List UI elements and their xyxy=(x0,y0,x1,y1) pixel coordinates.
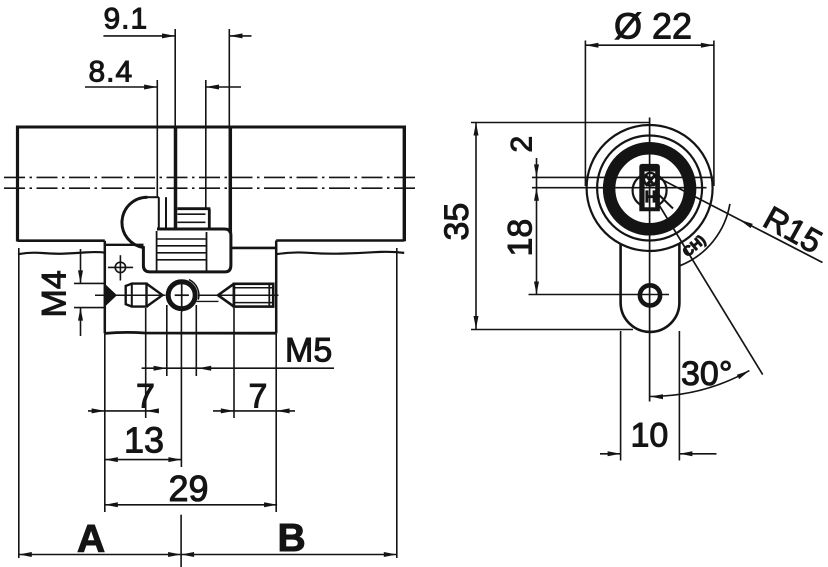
step line right of cam xyxy=(231,247,276,250)
extension line 8.4 left xyxy=(156,80,158,197)
dimension 8.4 line xyxy=(85,86,241,88)
cylinder body left edge xyxy=(16,126,19,242)
cam lobe arc and cam nose outline xyxy=(122,197,231,272)
dimension M5 line xyxy=(142,367,334,369)
dimension 2/18 vertical segments xyxy=(536,158,538,295)
M5 hole cross vertical xyxy=(181,281,183,313)
cam hatch line 3 xyxy=(157,252,207,254)
cam hatch boundary left xyxy=(156,231,158,271)
svg-text:CH): CH) xyxy=(679,232,708,260)
dimension 18 extension bottom xyxy=(529,294,670,296)
dimension 7 right line xyxy=(213,410,295,412)
horizontal centerline lower right view xyxy=(532,187,707,189)
fixing screw hole M5 ring xyxy=(168,282,195,309)
extension line 9.1 right xyxy=(228,29,230,127)
face outer circle xyxy=(587,125,713,251)
dimension 2 arrows / 18 arrows xyxy=(534,164,539,294)
grub screw left facet line xyxy=(131,284,133,307)
dimension 9.1 arrows xyxy=(162,33,243,38)
coupling inner line 2 xyxy=(178,221,206,223)
cylinder ring (thick) xyxy=(609,148,690,229)
extension line 9.1 left xyxy=(174,29,176,127)
extension line B right xyxy=(396,248,398,558)
svg-text:29: 29 xyxy=(169,468,209,509)
vertical centerline right view xyxy=(649,118,651,402)
A/B divider tick xyxy=(180,515,182,567)
svg-text:9.1: 9.1 xyxy=(104,3,149,36)
svg-text:2: 2 xyxy=(506,136,539,153)
keyhole key silhouette xyxy=(639,164,660,211)
worm screw cone base xyxy=(233,284,235,307)
M5 thread arc xyxy=(189,280,199,300)
worm screw end inner line xyxy=(268,284,270,307)
dimension 30deg arc xyxy=(650,371,749,397)
grub screw left body xyxy=(126,284,147,307)
web right edge (right view) xyxy=(678,243,681,303)
extension line x234 (worm screw) xyxy=(233,308,235,418)
worm screw thread line top xyxy=(234,287,273,289)
centerline upper (cylinder axis, left view) xyxy=(4,176,419,178)
dimension M4 extension bottom xyxy=(74,307,105,309)
svg-text:8.4: 8.4 xyxy=(89,56,134,89)
web top edge left of cam xyxy=(105,244,144,246)
plug slot edge left (thick) xyxy=(174,127,178,230)
dimension 29 arrows xyxy=(105,502,277,507)
svg-text:13: 13 xyxy=(124,420,164,461)
screw axis line xyxy=(95,294,165,296)
worm screw cone xyxy=(218,284,234,307)
dimension A/B arrows xyxy=(19,552,397,557)
dimension M4 extension top xyxy=(74,282,105,284)
extension line 8.4 right xyxy=(205,80,207,209)
keyway column line a xyxy=(158,197,160,229)
extension line x145.7 (grub screw) xyxy=(145,308,147,418)
dimension 35 line xyxy=(475,123,477,330)
cylinder body right edge xyxy=(403,126,406,242)
dimension 7 right arrows xyxy=(221,408,290,413)
web bottom edge xyxy=(105,332,276,333)
cam hatch line 4 xyxy=(157,259,207,261)
coupling rect top edge xyxy=(177,207,210,210)
worm screw body xyxy=(234,284,273,307)
dimension 13 line xyxy=(105,459,182,461)
svg-text:B: B xyxy=(278,517,306,560)
coupling inner line 1 xyxy=(178,213,206,215)
keyway column line b xyxy=(165,197,167,229)
cam hatch boundary right xyxy=(206,232,208,271)
svg-text:7: 7 xyxy=(136,378,155,416)
barrel bottom edge right xyxy=(276,239,404,242)
horizontal centerline upper right view xyxy=(532,176,714,178)
dimension 35 arrows xyxy=(474,123,479,330)
dimension 7 left arrows xyxy=(92,408,159,413)
dimension D22 line xyxy=(585,44,714,46)
svg-text:18: 18 xyxy=(502,219,540,257)
cam hatch line 1 xyxy=(157,238,207,240)
web bottom arc xyxy=(621,303,680,332)
screw secondary line xyxy=(197,300,219,302)
dimension M5 arrows xyxy=(154,366,212,371)
cylinder body top edge xyxy=(16,126,404,129)
svg-text:R15: R15 xyxy=(758,199,828,261)
extension M5 hole edge right xyxy=(195,305,197,376)
svg-text:35: 35 xyxy=(438,203,476,241)
extension line 10 right xyxy=(678,331,680,461)
barrel bottom edge left xyxy=(18,239,105,242)
R15 arc xyxy=(680,204,730,266)
extension line A left xyxy=(18,248,20,558)
extension M5 hole edge left xyxy=(166,305,168,376)
clutch pin cone (filled) xyxy=(105,284,117,306)
dimension M4 arrows xyxy=(78,270,83,320)
mounting hole xyxy=(640,285,660,305)
dimension 35 extension top xyxy=(471,122,650,124)
plug slot edge right (thick) xyxy=(229,127,233,233)
dimension D22 extension left xyxy=(584,41,586,187)
svg-text:10: 10 xyxy=(631,417,669,455)
centerline lower (plug axis, left view) xyxy=(4,187,419,189)
dimension D22 arrows xyxy=(585,43,714,48)
dimension M4 line segments xyxy=(80,249,82,336)
dimension 30deg arrows xyxy=(650,371,749,400)
face second circle xyxy=(597,136,702,241)
break wavy line left xyxy=(18,252,106,254)
R15 leader arrow xyxy=(739,220,753,229)
web left edge xyxy=(104,241,107,334)
svg-text:Ø 22: Ø 22 xyxy=(614,6,692,47)
dimension D22 extension right xyxy=(713,41,715,187)
extension line x104.8 lower xyxy=(104,333,106,512)
drill position cross mark xyxy=(108,255,133,280)
dimension 13 arrows xyxy=(105,457,182,462)
cam hatch line 2 xyxy=(157,245,207,247)
R15 short inner line xyxy=(657,193,674,209)
dimension 8.4 arrows xyxy=(144,85,219,90)
dimension 35 extension bottom xyxy=(471,329,633,331)
extension line 10 left xyxy=(620,331,622,461)
web left edge (right view) xyxy=(619,244,622,303)
svg-text:30°: 30° xyxy=(681,355,732,393)
extension line x181.4 (hole center) xyxy=(180,312,182,467)
svg-text:A: A xyxy=(77,518,105,561)
dimension 7 left line xyxy=(88,410,159,412)
svg-text:M4: M4 xyxy=(36,270,74,317)
R15 leader line xyxy=(653,175,823,263)
web right edge xyxy=(275,241,278,334)
extension line x276.2 lower xyxy=(275,333,277,512)
dimension A/B line xyxy=(19,554,397,556)
cam top edge xyxy=(146,196,158,198)
dimension 9.1 line xyxy=(103,35,251,37)
svg-text:M5: M5 xyxy=(285,332,332,370)
grub screw left cone xyxy=(147,284,163,307)
svg-text:7: 7 xyxy=(249,378,268,416)
dimension 10 arrows xyxy=(608,451,693,456)
coupling rect right edge xyxy=(208,209,211,229)
plug circle xyxy=(633,174,667,208)
worm screw thread line bottom xyxy=(234,302,273,304)
break wavy line right xyxy=(276,252,404,254)
dimension 29 line xyxy=(105,504,277,506)
30 degree line xyxy=(651,191,763,375)
dimension 10 line segments xyxy=(600,453,717,455)
